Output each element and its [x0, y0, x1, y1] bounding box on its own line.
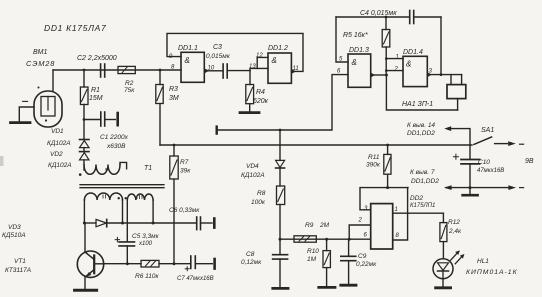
svg-text:100к: 100к — [251, 199, 266, 206]
node VD4 tap on input line — [279, 129, 282, 132]
op gate DD1.1 — [181, 52, 204, 82]
svg-text:390к: 390к — [366, 162, 381, 169]
svg-text:10: 10 — [208, 66, 215, 72]
svg-text:С4 0,015мк: С4 0,015мк — [360, 10, 397, 17]
wire node down to HA1 bottom line — [386, 75, 457, 110]
svg-text:HL1: HL1 — [477, 258, 489, 265]
wire DD1.3 pin5 from C4 node — [336, 17, 348, 62]
switch SA1 — [474, 137, 524, 146]
svg-text:R5 16к*: R5 16к* — [343, 32, 368, 39]
svg-text:12: 12 — [256, 53, 263, 59]
svg-text:R3: R3 — [169, 86, 178, 93]
resistor R12 — [440, 213, 447, 258]
capacitor C9 — [341, 239, 356, 284]
diode VD1 — [80, 140, 90, 148]
diode VD3 — [96, 219, 107, 226]
wire VD2 to winding I — [83, 160, 85, 170]
node C1 junction — [83, 118, 86, 121]
wedge output DD1.3 — [371, 73, 376, 78]
svg-text:К выв. 14: К выв. 14 — [407, 122, 435, 129]
chassis bar (R10 bottom) — [319, 286, 335, 289]
svg-text:0,015мк: 0,015мк — [206, 53, 231, 60]
svg-text:R11: R11 — [368, 154, 380, 161]
transistor VT1 — [77, 223, 104, 289]
resistor R3 — [156, 85, 163, 104]
wire C4 right leg down to DD1.4 output — [440, 17, 442, 75]
svg-text:&: & — [272, 56, 277, 65]
wire R1 bottom to diode column — [83, 105, 85, 140]
chassis bar (LED bottom) — [436, 286, 451, 289]
wire DD1.4 input stubs — [386, 58, 403, 60]
capacitor C4 — [410, 11, 441, 24]
wire R3 bottom to +rail corner — [159, 104, 161, 146]
svg-text:С5 3,3мк: С5 3,3мк — [132, 233, 160, 240]
svg-text:39к: 39к — [180, 168, 191, 175]
svg-text:2,4к: 2,4к — [448, 228, 462, 235]
capacitor C3 — [223, 64, 250, 78]
svg-text:DD2: DD2 — [410, 195, 423, 202]
svg-text:К175ЛП1: К175ЛП1 — [410, 203, 435, 209]
svg-text:VD2: VD2 — [50, 151, 63, 158]
svg-text:С10: С10 — [478, 159, 490, 166]
svg-text:VD3: VD3 — [8, 224, 21, 231]
chassis bar (C8 bottom) — [273, 287, 288, 290]
resistor R8 — [277, 186, 285, 254]
svg-text:ВМ1: ВМ1 — [33, 49, 48, 56]
resistor R11 — [384, 144, 391, 188]
svg-text:Т1: Т1 — [144, 165, 152, 172]
wire DD1.4 output to HA1 — [431, 74, 461, 76]
wire HA1 terminals — [450, 75, 452, 85]
svg-text:R9: R9 — [305, 222, 314, 229]
svg-text:СЭМ28: СЭМ28 — [26, 59, 55, 68]
winding numeral I — [105, 168, 107, 172]
svg-text:КД102А: КД102А — [48, 162, 72, 169]
svg-text:DD1.4: DD1.4 — [403, 49, 423, 56]
svg-text:С6 0,33мк: С6 0,33мк — [169, 207, 200, 214]
svg-text:9В: 9В — [525, 158, 534, 165]
svg-text:К выв. 7: К выв. 7 — [410, 169, 435, 176]
svg-text:3М: 3М — [169, 95, 179, 102]
svg-text:DD1.2: DD1.2 — [268, 45, 288, 52]
wire common rail y223 — [84, 222, 96, 224]
chassis bar (C1 right) — [116, 113, 119, 125]
resistor R6 — [141, 260, 159, 267]
svg-text:R7: R7 — [180, 159, 189, 166]
wire to pin14 DD1,DD2 arrow stub — [448, 129, 470, 145]
capacitor C8 — [273, 255, 288, 287]
winding numeral III — [137, 195, 142, 199]
wire HA1 bottom lead — [457, 99, 459, 110]
svg-text:0,22мк: 0,22мк — [356, 261, 377, 268]
svg-text:2М: 2М — [319, 222, 330, 229]
svg-text:КД510А: КД510А — [2, 232, 26, 239]
svg-text:1М: 1М — [307, 256, 317, 263]
wire DD1.1 output to C3 — [209, 70, 223, 72]
wire feedback loop DD1.1-DD1.2 — [167, 33, 303, 71]
svg-text:С3: С3 — [213, 44, 222, 51]
svg-text:R8: R8 — [257, 190, 266, 197]
wire C10 stub below — [469, 188, 471, 194]
wire top line C4 — [336, 16, 409, 18]
svg-text:&: & — [352, 58, 357, 67]
svg-text:R2: R2 — [125, 80, 134, 87]
svg-text:DD1.1: DD1.1 — [178, 45, 198, 52]
chassis bar (C7 right) — [213, 259, 216, 269]
svg-text:С9: С9 — [358, 253, 367, 260]
buzzer HA1 ЗП-1 — [447, 85, 466, 99]
svg-text:DD1,DD2: DD1,DD2 — [407, 130, 435, 137]
node R3 top junction — [159, 69, 162, 72]
svg-text:КИПМ01А-1К: КИПМ01А-1К — [466, 269, 518, 276]
svg-text:13: 13 — [249, 64, 256, 70]
svg-text:&: & — [406, 60, 411, 69]
wire 0V line with arrows — [444, 185, 524, 190]
wire DD2 pin6 line — [280, 238, 371, 240]
capacitor C1 — [84, 112, 115, 126]
resistor R5 — [382, 16, 390, 75]
wire base line — [104, 263, 141, 265]
svg-text:&: & — [185, 56, 190, 65]
svg-text:х100: х100 — [138, 241, 153, 247]
diode VD4 — [276, 130, 285, 186]
wedge output DD1.4 — [427, 72, 432, 77]
svg-text:VD1: VD1 — [51, 128, 64, 135]
wedge output DD1.2 — [291, 69, 296, 74]
svg-text:75к: 75к — [124, 87, 135, 94]
led HL1 — [433, 250, 464, 286]
svg-text:1: 1 — [396, 55, 399, 61]
wire R1 column — [83, 70, 85, 87]
svg-text:2: 2 — [394, 67, 399, 73]
op gate DD1.3 — [348, 54, 371, 87]
node DD1.3 out / R5 / DD1.4 in — [385, 74, 388, 77]
wire DD1.3 input line from C6/C7 node — [217, 75, 348, 130]
winding numeral II — [103, 195, 106, 199]
svg-text:НА1 ЗП-1: НА1 ЗП-1 — [402, 101, 433, 108]
wire DD2 feedback loop — [360, 188, 408, 210]
svg-text:VD4: VD4 — [246, 163, 259, 170]
transformer winding II — [84, 193, 122, 223]
scan smudges (edges) — [0, 156, 4, 166]
wire DD2 pin1/pin8 node to R12 — [393, 188, 408, 240]
resistor R4 — [246, 85, 254, 104]
chassis-style tick left end of input line — [215, 127, 217, 134]
svg-text:11: 11 — [293, 66, 299, 72]
svg-text:2: 2 — [358, 218, 363, 224]
svg-text:КД102А: КД102А — [241, 172, 265, 179]
resistor R7 — [170, 156, 178, 179]
chassis bar (VT1 emitter) — [75, 289, 97, 292]
op gate DD1.4 — [403, 56, 427, 86]
capacitor C10 electrolytic — [453, 145, 479, 188]
svg-text:R6 110к: R6 110к — [135, 273, 159, 280]
svg-text:VT1: VT1 — [14, 258, 26, 265]
wire main signal line — [53, 69, 181, 71]
svg-text:DD1.3: DD1.3 — [349, 47, 369, 54]
wire DD2 pin2 — [349, 225, 371, 239]
capacitor C7 electrolytic — [185, 256, 212, 271]
svg-text:DD1 К175ЛА7: DD1 К175ЛА7 — [44, 23, 106, 33]
svg-text:DD1,DD2: DD1,DD2 — [411, 178, 439, 185]
microphone BM1 СЭМ28 — [19, 70, 62, 127]
resistor R2 — [118, 66, 135, 73]
svg-text:R12: R12 — [448, 219, 460, 226]
svg-text:620к: 620к — [253, 98, 269, 105]
ic DD2 — [371, 204, 393, 249]
diode VD2 — [80, 148, 90, 160]
chassis bar (C6 right) — [213, 219, 216, 228]
capacitor C6 — [197, 217, 212, 230]
resistor R9 — [294, 236, 316, 242]
svg-text:С1 2200х: С1 2200х — [100, 134, 129, 141]
svg-text:С2 2,2х5000: С2 2,2х5000 — [77, 55, 117, 62]
svg-text:х630В: х630В — [106, 143, 126, 150]
svg-text:С8: С8 — [246, 251, 255, 258]
svg-text:SA1: SA1 — [481, 127, 494, 134]
wire R4 bottom — [249, 104, 251, 111]
wire +rail horizontal — [160, 144, 472, 146]
wire R7 column — [173, 144, 176, 264]
ground chassis bar (microphone) — [11, 121, 31, 124]
svg-text:R10: R10 — [307, 248, 319, 255]
svg-text:R4: R4 — [256, 89, 265, 96]
transformer core — [80, 184, 164, 186]
resistor R10 — [323, 239, 330, 286]
svg-text:КД102А: КД102А — [47, 140, 71, 147]
transformer T1 winding I — [79, 162, 127, 176]
svg-text:1: 1 — [395, 207, 398, 213]
chassis bar below C10 — [463, 194, 478, 197]
chassis bar (R4 bottom) — [240, 111, 259, 114]
wire R3 column — [159, 70, 161, 85]
svg-text:47мкх16В: 47мкх16В — [477, 168, 504, 174]
node R1 top junction — [83, 69, 86, 72]
svg-text:R1: R1 — [91, 87, 100, 94]
wedge output DD1.1 — [204, 68, 209, 73]
wire DD1.3 output to node — [375, 74, 387, 76]
resistor R1 — [80, 87, 88, 105]
transformer winding III — [125, 194, 154, 223]
capacitor C5 — [115, 200, 134, 264]
svg-text:15М: 15М — [89, 95, 103, 102]
wire C3 to DD1.2 pin13 and R4 — [250, 68, 268, 70]
capacitor C2 — [101, 64, 105, 77]
svg-text:0,12мк: 0,12мк — [241, 259, 262, 266]
svg-text:КТ3117А: КТ3117А — [5, 267, 31, 274]
wire DD1.2 tied input pin12 — [257, 57, 268, 68]
svg-text:С7 47мкх16В: С7 47мкх16В — [177, 276, 214, 282]
chassis bar (C9 bottom) — [341, 284, 356, 287]
op gate DD1.2 — [268, 53, 291, 83]
